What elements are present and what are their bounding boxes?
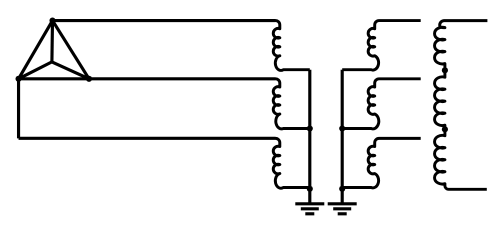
delta center ray to bottom-right vertex xyxy=(52,62,89,79)
ground bar 2 xyxy=(301,207,319,210)
node: tap 1 on L7 xyxy=(442,67,448,73)
wire phase B: delta bottom edge to coil L2 xyxy=(19,77,276,80)
three-phase source: delta edge top to bottom-left xyxy=(19,21,53,79)
ground stem xyxy=(308,189,311,203)
secondary coil L6 xyxy=(342,138,421,188)
ground bar 3 xyxy=(305,212,314,215)
ground bar 1 xyxy=(328,202,357,205)
secondary neutral bus vertical xyxy=(341,70,344,189)
ground bar 3 xyxy=(338,212,347,215)
ground bar 2 xyxy=(333,207,351,210)
delta center ray to top vertex xyxy=(50,21,54,62)
wire phase A to coil L1 xyxy=(53,19,276,22)
primary neutral bus vertical xyxy=(308,70,311,189)
delta edge top to bottom-right xyxy=(53,21,90,79)
node: delta bottom-right vertex xyxy=(86,76,92,82)
primary coil L3 xyxy=(273,138,310,188)
primary coil L1 xyxy=(273,21,310,71)
node: L6 bottom junction xyxy=(339,186,345,192)
node: L5 bottom junction xyxy=(339,125,345,131)
node: tap 2 on L7 xyxy=(442,126,448,132)
node: delta top vertex xyxy=(49,18,55,24)
delta center ray to bottom-left vertex xyxy=(19,62,52,79)
node: L2 bottom junction xyxy=(307,125,313,131)
node: delta bottom-left vertex xyxy=(15,76,21,82)
secondary coil L4 xyxy=(342,21,421,71)
ground stem xyxy=(341,189,344,203)
node: L3 bottom junction xyxy=(307,186,313,192)
tapped winding L7 xyxy=(435,21,488,190)
wire phase C: vertical drop from bottom-left vertex xyxy=(17,79,20,139)
ground bar 1 xyxy=(295,202,324,205)
wire phase C: bottom run to coil L3 xyxy=(19,137,276,140)
secondary coil L5 xyxy=(342,79,421,129)
primary coil L2 xyxy=(273,79,310,129)
